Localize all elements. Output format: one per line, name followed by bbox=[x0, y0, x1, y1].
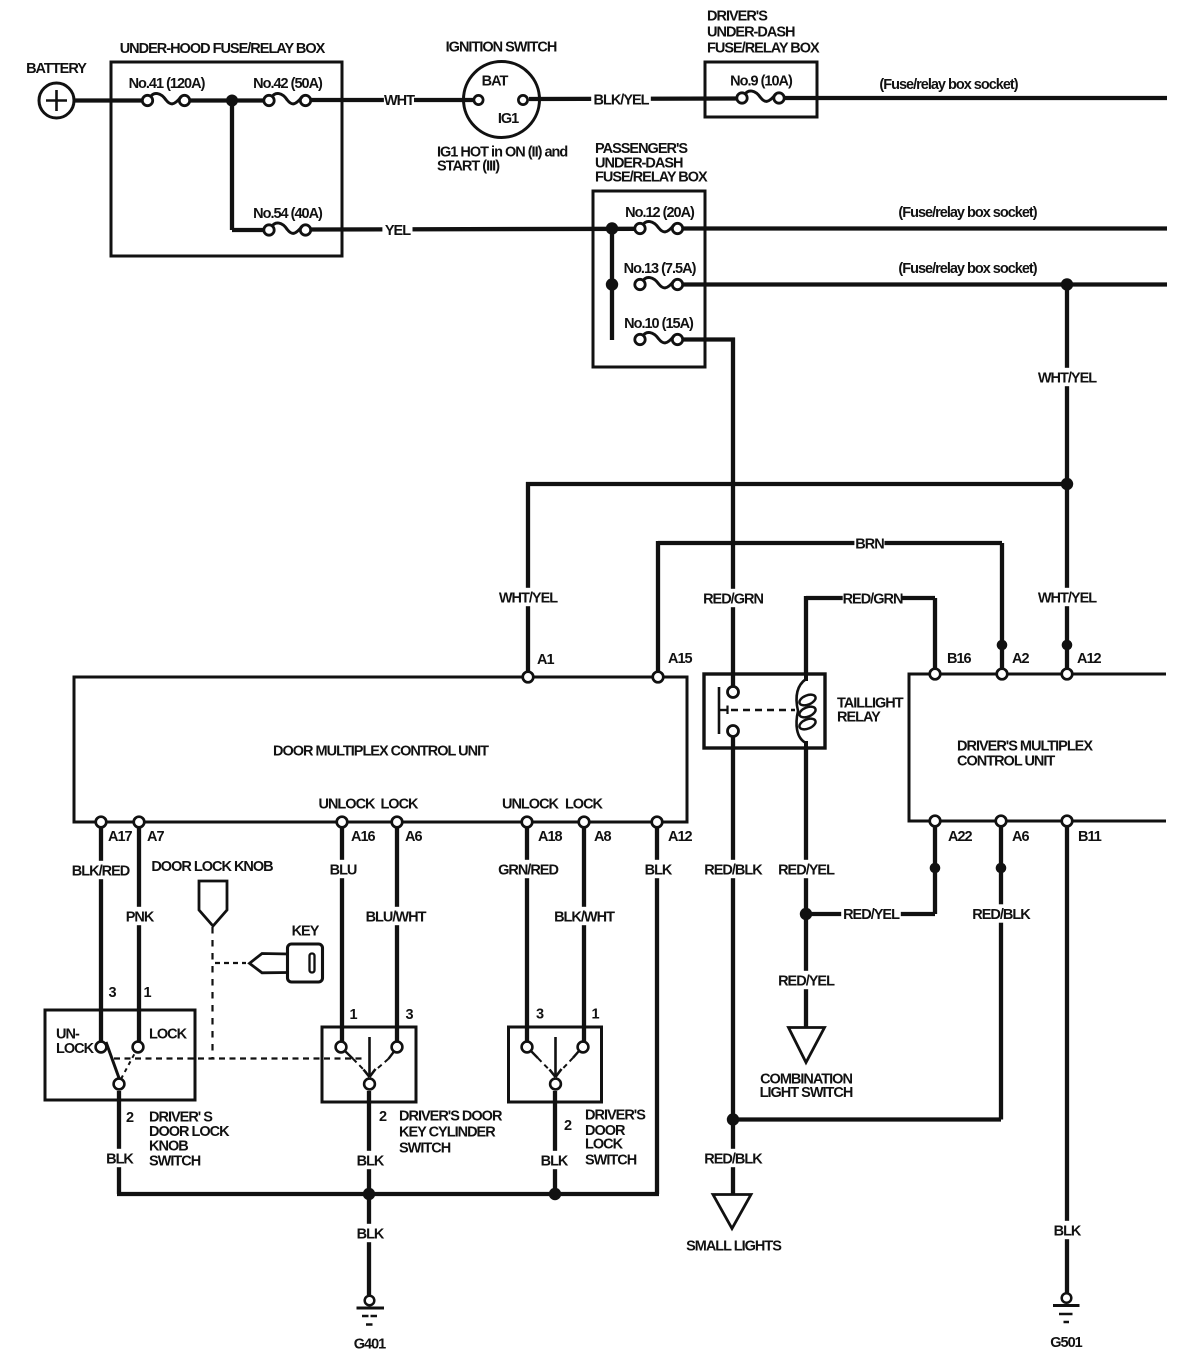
knob switch contact 1 bbox=[133, 1042, 144, 1053]
node junction under-hood bbox=[226, 95, 238, 107]
terminal A2 bbox=[997, 669, 1008, 680]
svg-text:DRIVER'S: DRIVER'S bbox=[585, 1108, 646, 1124]
wire label RED/BLK right bbox=[971, 904, 1031, 922]
wire label RED/GRN right bbox=[843, 589, 903, 607]
wire A8 down bbox=[582, 828, 586, 1047]
wire to G401 bbox=[367, 1194, 371, 1295]
svg-text:UNLOCK: UNLOCK bbox=[502, 797, 560, 813]
svg-text:BLK: BLK bbox=[645, 862, 673, 878]
wire fuse41 to node bbox=[190, 98, 264, 102]
svg-text:WHT: WHT bbox=[384, 93, 415, 109]
wire ignition to driver's fuse box BLK/YEL bbox=[529, 96, 737, 101]
svg-text:WHT/YEL: WHT/YEL bbox=[1038, 590, 1097, 606]
svg-text:DRIVER'S MULTIPLEX: DRIVER'S MULTIPLEX bbox=[957, 739, 1093, 755]
terminal A6 door bbox=[392, 817, 403, 828]
key cyl contact 1 bbox=[336, 1042, 347, 1053]
lock switch dashed blades bbox=[532, 1052, 539, 1059]
svg-text:RED/GRN: RED/GRN bbox=[703, 591, 763, 607]
wire to fuse54 bbox=[232, 228, 264, 232]
svg-text:A1: A1 bbox=[537, 652, 554, 668]
wire label GRN/RED bbox=[498, 860, 558, 878]
svg-text:UNLOCK: UNLOCK bbox=[318, 797, 376, 813]
key cyl common contact bbox=[364, 1079, 375, 1090]
svg-text:(Fuse/relay box socket): (Fuse/relay box socket) bbox=[898, 261, 1037, 277]
wire A6 down bbox=[395, 828, 399, 1047]
svg-text:RED/YEL: RED/YEL bbox=[843, 907, 900, 923]
splice dot above A2 bbox=[997, 640, 1008, 651]
door lock switch box bbox=[509, 1027, 602, 1102]
splice dot A22 bbox=[930, 863, 941, 874]
svg-text:BATTERY: BATTERY bbox=[26, 61, 87, 77]
svg-text:BLU/WHT: BLU/WHT bbox=[366, 909, 427, 925]
svg-text:1: 1 bbox=[349, 1007, 357, 1023]
fuse No.42 (50A) bbox=[264, 95, 274, 105]
wire A17 down bbox=[99, 828, 103, 1047]
wire A12 down to ground bus bbox=[655, 828, 659, 1194]
svg-text:UNDER-HOOD FUSE/RELAY BOX: UNDER-HOOD FUSE/RELAY BOX bbox=[120, 41, 326, 57]
wire label BLK G401 bbox=[355, 1224, 385, 1242]
svg-text:SWITCH: SWITCH bbox=[399, 1141, 451, 1157]
wire label BLK/YEL bbox=[591, 90, 651, 108]
svg-text:G401: G401 bbox=[354, 1337, 386, 1353]
fuse No.9 (10A) bbox=[737, 93, 747, 103]
door multiplex control unit box bbox=[74, 677, 687, 822]
wire A22 down bbox=[933, 827, 937, 914]
wire RED/GRN down to B16 bbox=[933, 598, 937, 674]
svg-text:BLU: BLU bbox=[330, 862, 357, 878]
wire label YEL bbox=[382, 220, 412, 238]
svg-text:A16: A16 bbox=[351, 829, 376, 845]
wire A16 down bbox=[340, 828, 344, 1047]
terminal A12 door bbox=[652, 817, 663, 828]
svg-text:No.54 (40A): No.54 (40A) bbox=[253, 206, 323, 222]
svg-text:DOOR MULTIPLEX CONTROL UNIT: DOOR MULTIPLEX CONTROL UNIT bbox=[273, 744, 489, 760]
svg-text:A18: A18 bbox=[538, 829, 563, 845]
wire RED/GRN coil up bbox=[804, 596, 808, 674]
svg-text:LOCK: LOCK bbox=[56, 1041, 95, 1057]
wire relay switch down to small lights bbox=[731, 737, 735, 1194]
taillight relay coil bbox=[804, 674, 808, 681]
wire label WHT/YEL lower right bbox=[1037, 588, 1097, 606]
svg-text:(Fuse/relay box socket): (Fuse/relay box socket) bbox=[898, 205, 1037, 221]
svg-text:No.13 (7.5A): No.13 (7.5A) bbox=[624, 261, 697, 277]
node junction RED/YEL bbox=[800, 908, 812, 920]
svg-text:(Fuse/relay box socket): (Fuse/relay box socket) bbox=[879, 77, 1018, 93]
fuse No.13 (7.5A) bbox=[635, 279, 645, 289]
wire A7 down bbox=[137, 828, 141, 1047]
terminal A1 bbox=[523, 672, 534, 683]
svg-text:BLK/WHT: BLK/WHT bbox=[554, 909, 615, 925]
wire label RED/BLK upper bbox=[703, 860, 763, 878]
key symbol bbox=[288, 944, 323, 982]
svg-text:A2: A2 bbox=[1012, 651, 1029, 667]
door lock knob dashed link bbox=[211, 927, 213, 1058]
node junction WHT/YEL tap bbox=[1061, 278, 1073, 290]
wire label BLK A12 bbox=[643, 860, 673, 878]
svg-text:3: 3 bbox=[405, 1007, 413, 1023]
wire fuse9 socket bbox=[785, 96, 1167, 100]
terminal A7 bbox=[134, 817, 145, 828]
key cyl contact 3 bbox=[392, 1042, 403, 1053]
svg-text:SWITCH: SWITCH bbox=[585, 1153, 637, 1169]
svg-text:RED/BLK: RED/BLK bbox=[704, 862, 763, 878]
svg-text:1: 1 bbox=[591, 1007, 599, 1023]
svg-text:2: 2 bbox=[564, 1118, 572, 1134]
taillight relay mech dashed link bbox=[731, 709, 795, 712]
wire label WHT/YEL upper right bbox=[1037, 368, 1097, 386]
wire label BLU/WHT bbox=[366, 907, 426, 925]
wire key cyl to ground bus bbox=[367, 1091, 371, 1194]
node junction WHT/YEL cross bbox=[1061, 478, 1073, 490]
svg-text:BLK: BLK bbox=[541, 1153, 569, 1169]
svg-text:2: 2 bbox=[379, 1109, 387, 1125]
svg-text:G501: G501 bbox=[1050, 1335, 1082, 1351]
node junction passenger bus mid bbox=[606, 278, 618, 290]
taillight relay box bbox=[704, 674, 825, 748]
terminal A16 bbox=[337, 817, 348, 828]
wire battery to under-hood fuse box bbox=[74, 98, 143, 102]
terminal A22 bbox=[930, 816, 941, 827]
svg-text:No.9 (10A): No.9 (10A) bbox=[730, 74, 793, 90]
svg-text:A22: A22 bbox=[948, 829, 973, 845]
svg-text:WHT/YEL: WHT/YEL bbox=[1038, 370, 1097, 386]
wire BRN horizontal bbox=[658, 541, 1002, 545]
svg-text:START (III): START (III) bbox=[437, 159, 500, 175]
wire knob switch to ground bus bbox=[117, 1091, 121, 1194]
svg-text:LOCK: LOCK bbox=[149, 1027, 188, 1043]
wire label BLK lock switch bbox=[539, 1151, 569, 1169]
svg-text:KEY CYLINDER: KEY CYLINDER bbox=[399, 1125, 496, 1141]
svg-text:PNK: PNK bbox=[126, 909, 155, 925]
svg-text:KNOB: KNOB bbox=[149, 1139, 188, 1155]
wire label PNK bbox=[124, 907, 154, 925]
svg-text:CONTROL UNIT: CONTROL UNIT bbox=[957, 754, 1055, 770]
driver's multiplex control unit box bbox=[909, 674, 1166, 821]
wire label BRN bbox=[854, 534, 884, 552]
svg-text:No.12 (20A): No.12 (20A) bbox=[625, 205, 695, 221]
svg-text:DRIVER'S: DRIVER'S bbox=[707, 9, 768, 25]
wire label WHT bbox=[384, 90, 414, 108]
splice dot above A12 bbox=[1062, 640, 1073, 651]
taillight relay switch contacts bbox=[728, 687, 739, 698]
svg-text:DRIVER'S DOOR: DRIVER'S DOOR bbox=[399, 1109, 503, 1125]
svg-text:2: 2 bbox=[126, 1110, 134, 1126]
terminal A15 bbox=[653, 672, 664, 683]
svg-text:UNDER-DASH: UNDER-DASH bbox=[707, 25, 795, 41]
svg-text:A12: A12 bbox=[1077, 651, 1102, 667]
svg-text:RELAY: RELAY bbox=[837, 710, 881, 726]
svg-text:A15: A15 bbox=[668, 651, 693, 667]
lock switch common contact bbox=[550, 1079, 561, 1090]
svg-text:A6: A6 bbox=[1012, 829, 1029, 845]
wire WHT/YEL to A1 bbox=[526, 482, 530, 677]
wire fuse10 out bbox=[683, 337, 735, 341]
svg-text:A7: A7 bbox=[147, 829, 164, 845]
fuse No.12 (20A) bbox=[635, 223, 645, 233]
svg-text:FUSE/RELAY BOX: FUSE/RELAY BOX bbox=[707, 41, 820, 57]
fuse No.54 (40A) bbox=[264, 225, 274, 235]
wire label BLK/WHT bbox=[554, 907, 614, 925]
ground G501 bbox=[1062, 1293, 1072, 1303]
wire label RED/YEL mid bbox=[841, 904, 901, 922]
knob switch contact 3 bbox=[96, 1042, 107, 1053]
wire label BLK/RED bbox=[71, 861, 131, 879]
svg-text:RED/GRN: RED/GRN bbox=[843, 591, 903, 607]
svg-text:GRN/RED: GRN/RED bbox=[498, 862, 558, 878]
svg-text:B16: B16 bbox=[947, 651, 972, 667]
svg-text:BLK/RED: BLK/RED bbox=[72, 863, 130, 879]
node junction key cyl ground bbox=[363, 1188, 375, 1200]
wire B11 down to G501 bbox=[1065, 827, 1069, 1293]
ground G401 bbox=[365, 1296, 375, 1306]
wire A6 down to small lights junction bbox=[999, 827, 1003, 1120]
wire fuse54 to passenger box YEL bbox=[311, 227, 635, 232]
node junction passenger bus top bbox=[606, 222, 618, 234]
ignition switch U1 bbox=[464, 62, 540, 138]
wire fuse12 socket bbox=[683, 226, 1167, 230]
wire BRN from A15 up bbox=[656, 541, 660, 677]
wire fuse10 down to taillight relay bbox=[731, 338, 735, 693]
key dashed link bbox=[215, 962, 246, 964]
terminal A18 bbox=[522, 817, 533, 828]
svg-text:BLK: BLK bbox=[1054, 1223, 1082, 1239]
door lock knob symbol bbox=[199, 881, 227, 926]
wire horizontal to small lights junction bbox=[733, 1117, 1001, 1121]
svg-text:FUSE/RELAY BOX: FUSE/RELAY BOX bbox=[595, 170, 708, 186]
fuse No.41 (120A) bbox=[142, 95, 152, 105]
passenger bus wire bbox=[610, 229, 614, 341]
wire lock switch to ground bus bbox=[553, 1091, 557, 1194]
key cyl dashed blades bbox=[346, 1052, 354, 1059]
ground bus wire bbox=[117, 1192, 659, 1196]
svg-text:A8: A8 bbox=[594, 829, 611, 845]
svg-text:RED/BLK: RED/BLK bbox=[704, 1151, 763, 1167]
combination light switch arrow bbox=[789, 1028, 825, 1063]
wire label BLK knob bbox=[104, 1149, 134, 1167]
svg-text:LIGHT SWITCH: LIGHT SWITCH bbox=[760, 1085, 853, 1101]
svg-text:IGNITION SWITCH: IGNITION SWITCH bbox=[446, 40, 557, 56]
wire fuse42 to ignition switch WHT bbox=[311, 98, 473, 102]
node junction small lights bbox=[727, 1113, 739, 1125]
svg-text:RED/YEL: RED/YEL bbox=[778, 973, 835, 989]
wire BRN down to A2 bbox=[1000, 543, 1004, 674]
wire WHT/YEL horizontal bbox=[526, 482, 1067, 486]
svg-text:B11: B11 bbox=[1078, 829, 1102, 845]
terminal A12 driver bbox=[1062, 669, 1073, 680]
wire node down to fuse54 bbox=[230, 101, 234, 231]
terminal B16 bbox=[930, 669, 941, 680]
knob switch dashed blade bbox=[121, 1051, 136, 1079]
svg-text:WHT/YEL: WHT/YEL bbox=[499, 590, 558, 606]
wire label BLK key cyl bbox=[355, 1151, 385, 1169]
svg-text:LOCK: LOCK bbox=[565, 797, 604, 813]
svg-text:No.10 (15A): No.10 (15A) bbox=[624, 316, 694, 332]
svg-text:A17: A17 bbox=[108, 829, 133, 845]
svg-text:BRN: BRN bbox=[855, 536, 884, 552]
wire label BLK B11 bbox=[1052, 1221, 1082, 1239]
terminal A17 bbox=[96, 817, 107, 828]
small lights arrow bbox=[713, 1195, 751, 1229]
svg-text:A6: A6 bbox=[405, 829, 422, 845]
svg-text:LOCK: LOCK bbox=[380, 797, 419, 813]
svg-text:A12: A12 bbox=[668, 829, 693, 845]
svg-text:BLK: BLK bbox=[106, 1151, 134, 1167]
taillight relay armature bbox=[718, 687, 721, 734]
key cyl actuator bbox=[368, 1037, 371, 1075]
terminal A6 driver bbox=[996, 816, 1007, 827]
wire label WHT/YEL left bbox=[498, 588, 558, 606]
svg-text:SWITCH: SWITCH bbox=[149, 1154, 201, 1170]
wire label RED/YEL coil bbox=[776, 860, 836, 878]
svg-text:KEY: KEY bbox=[292, 924, 320, 940]
terminal A8 bbox=[579, 817, 590, 828]
svg-text:1: 1 bbox=[143, 985, 151, 1001]
wire label BLU bbox=[328, 860, 358, 878]
battery B+ symbol bbox=[39, 83, 74, 118]
svg-text:No.41 (120A): No.41 (120A) bbox=[129, 76, 206, 92]
svg-text:SMALL LIGHTS: SMALL LIGHTS bbox=[686, 1239, 782, 1255]
svg-text:BLK: BLK bbox=[357, 1153, 385, 1169]
terminal B11 bbox=[1062, 816, 1073, 827]
wire RED/GRN horizontal bbox=[806, 596, 935, 600]
wire relay coil down to combination switch bbox=[804, 748, 808, 1027]
knob switch common contact bbox=[114, 1079, 125, 1090]
lock switch contact 1 bbox=[578, 1042, 589, 1053]
lock switch actuator bbox=[554, 1037, 557, 1075]
driver's under-dash fuse/relay box bbox=[705, 62, 817, 117]
svg-text:BLK: BLK bbox=[357, 1226, 385, 1242]
svg-text:3: 3 bbox=[536, 1007, 544, 1023]
fuse No.10 (15A) bbox=[635, 334, 645, 344]
wire label RED/YEL lower bbox=[776, 971, 836, 989]
svg-text:DOOR LOCK KNOB: DOOR LOCK KNOB bbox=[151, 859, 273, 875]
wire WHT/YEL right vertical bbox=[1065, 285, 1069, 675]
svg-text:BAT: BAT bbox=[482, 74, 509, 90]
splice dot A6 bbox=[996, 863, 1007, 874]
svg-text:YEL: YEL bbox=[385, 223, 411, 239]
svg-text:RED/YEL: RED/YEL bbox=[778, 862, 835, 878]
passenger's under-dash fuse/relay box bbox=[593, 191, 705, 367]
wire label RED/BLK lower bbox=[703, 1149, 763, 1167]
svg-text:3: 3 bbox=[108, 985, 116, 1001]
wire fuse13 socket bbox=[683, 282, 1167, 286]
svg-text:LOCK: LOCK bbox=[585, 1137, 624, 1153]
svg-text:IG1: IG1 bbox=[498, 111, 519, 127]
key cylinder switch box bbox=[322, 1027, 416, 1102]
svg-text:BLK/YEL: BLK/YEL bbox=[593, 92, 649, 108]
mechanical dashed link bbox=[114, 1057, 364, 1059]
svg-text:RED/BLK: RED/BLK bbox=[972, 907, 1031, 923]
under-hood fuse/relay box bbox=[111, 62, 342, 256]
knob switch blade bbox=[106, 1042, 119, 1078]
svg-text:No.42 (50A): No.42 (50A) bbox=[253, 76, 323, 92]
node junction lock switch ground bbox=[549, 1188, 561, 1200]
door lock knob switch box bbox=[45, 1010, 195, 1100]
wire label RED/GRN left bbox=[703, 589, 763, 607]
wire A18 down bbox=[525, 828, 529, 1047]
lock switch contact 3 bbox=[522, 1042, 533, 1053]
wire RED/YEL horizontal to A22 bbox=[806, 912, 935, 916]
